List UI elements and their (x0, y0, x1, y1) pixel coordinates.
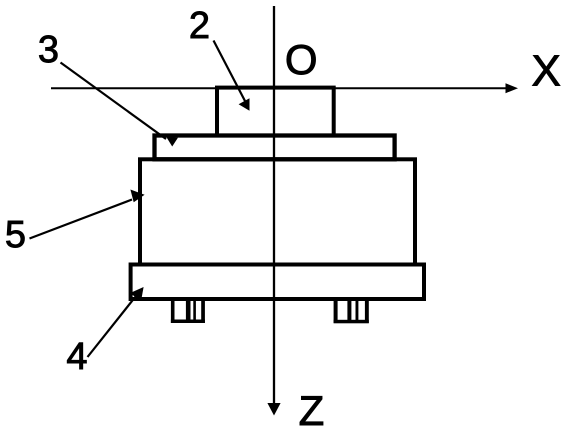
svg-text:2: 2 (189, 5, 210, 47)
svg-text:O: O (285, 36, 318, 83)
svg-text:Z: Z (299, 387, 325, 434)
plate 3 (thin plate) (155, 136, 395, 160)
leader arrow to base plate 4 (88, 287, 144, 357)
svg-text:X: X (532, 46, 561, 95)
left foot (171, 299, 205, 323)
block 2 (top block) (217, 88, 334, 136)
leader arrow to plate 3 (61, 63, 179, 147)
svg-text:5: 5 (5, 214, 26, 256)
box 5 (main body) (140, 159, 415, 264)
Z axis (267, 6, 280, 416)
svg-text:3: 3 (38, 29, 59, 71)
leader arrow to block 2 (214, 41, 250, 111)
X axis (51, 83, 518, 93)
base plate 4 (131, 265, 424, 300)
svg-text:4: 4 (66, 336, 87, 378)
leader arrow to box 5 (30, 190, 145, 239)
right foot (334, 299, 369, 323)
